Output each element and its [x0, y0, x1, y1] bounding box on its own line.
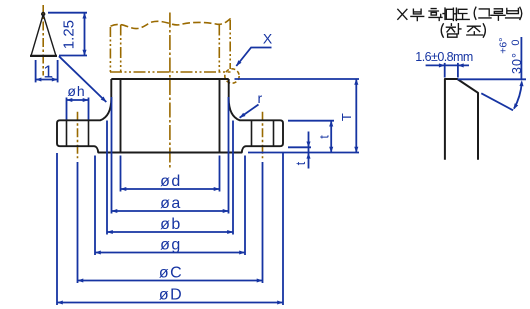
svg-text:øa: øa [160, 195, 182, 212]
svg-text:øC: øC [159, 265, 183, 282]
svg-text:0: 0 [510, 39, 522, 45]
svg-text:X: X [263, 31, 273, 47]
svg-text:øD: øD [159, 287, 183, 304]
svg-text:t: t [294, 161, 308, 165]
svg-text:øh: øh [67, 83, 85, 99]
svg-text:1.25: 1.25 [61, 20, 78, 49]
svg-text:T: T [339, 113, 354, 121]
svg-text:30°: 30° [510, 52, 524, 74]
svg-text:ød: ød [160, 173, 182, 190]
svg-text:t: t [317, 135, 331, 139]
svg-text:1.6±0.8mm: 1.6±0.8mm [415, 50, 473, 64]
svg-text:øg: øg [160, 237, 182, 254]
svg-text:+6°: +6° [498, 38, 510, 54]
svg-text:r: r [257, 90, 262, 106]
svg-text:øb: øb [160, 216, 182, 233]
svg-text:1: 1 [43, 61, 53, 81]
